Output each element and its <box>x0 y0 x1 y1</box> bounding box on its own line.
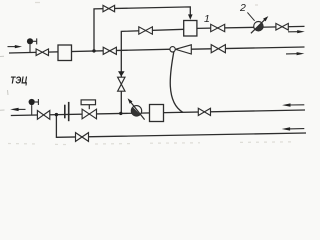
svg-text:1: 1 <box>204 13 210 25</box>
svg-text:ТЭЦ: ТЭЦ <box>10 76 28 87</box>
svg-text:2: 2 <box>239 2 246 14</box>
